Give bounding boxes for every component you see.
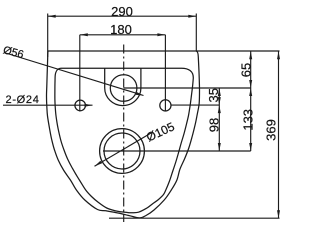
svg-text:369: 369: [263, 119, 278, 141]
svg-text:Ø105: Ø105: [144, 119, 177, 144]
svg-text:180: 180: [110, 22, 132, 37]
svg-text:Ø56: Ø56: [2, 44, 25, 61]
svg-text:133: 133: [240, 109, 255, 131]
svg-text:35: 35: [206, 88, 221, 102]
svg-text:65: 65: [239, 63, 254, 77]
svg-text:2-Ø24: 2-Ø24: [6, 94, 40, 106]
svg-text:290: 290: [111, 4, 133, 19]
svg-text:98: 98: [207, 118, 222, 132]
